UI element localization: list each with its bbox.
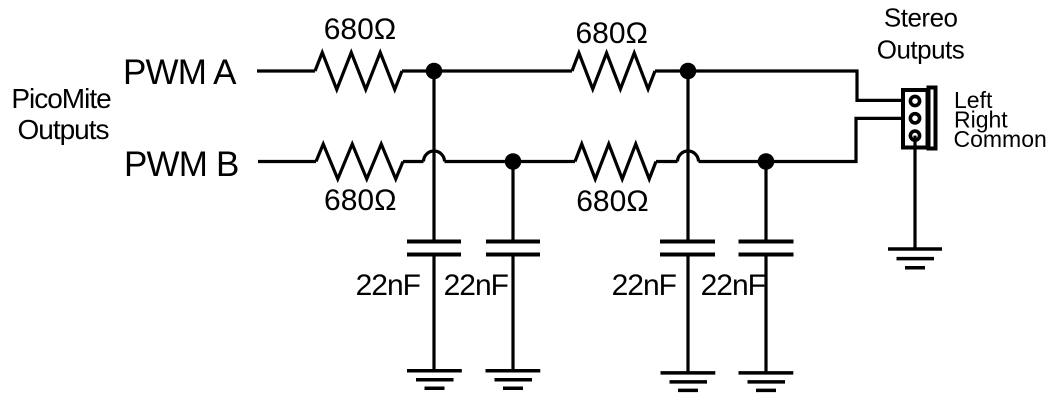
ground G1	[407, 371, 462, 389]
wire B row to connector (Right)	[699, 118, 904, 161]
wire V2 junction J3 down to C2	[511, 162, 514, 242]
capacitor C2 22nF	[444, 242, 540, 303]
svg-text:Outputs: Outputs	[877, 35, 965, 65]
svg-text:22nF: 22nF	[444, 269, 509, 302]
capacitor C1 22nF	[356, 242, 461, 303]
svg-text:22nF: 22nF	[356, 269, 421, 302]
svg-text:PWM A: PWM A	[123, 53, 237, 92]
wire PWM B input	[258, 160, 316, 163]
wire C1 to ground	[432, 255, 435, 371]
node junction J3	[505, 153, 522, 170]
svg-text:22nF: 22nF	[701, 269, 766, 302]
connector J5 stereo jack body	[903, 88, 936, 149]
node PWM B	[124, 145, 239, 184]
label PicoMite Outputs	[11, 83, 111, 145]
svg-text:PicoMite: PicoMite	[11, 83, 111, 114]
wire B row segment 2	[656, 160, 678, 163]
wire B row segment	[403, 160, 424, 163]
resistor R3 680Ω	[316, 144, 403, 217]
connector pin 1 Left	[910, 96, 919, 105]
ground G5	[888, 249, 942, 268]
capacitor C4 22nF	[701, 242, 794, 303]
resistor R1 680Ω	[315, 13, 402, 90]
wire V1 junction J1 down to C1	[432, 71, 435, 242]
wire hop over V3	[678, 151, 699, 162]
ground G4	[739, 373, 794, 391]
svg-text:680Ω: 680Ω	[324, 184, 396, 217]
wire C4 to ground	[764, 255, 767, 373]
wire C3 to ground	[686, 255, 689, 373]
wire A row middle	[402, 69, 572, 72]
wire V3 junction J2 down to C3	[686, 71, 689, 242]
ground G2	[486, 371, 541, 389]
label pin names	[954, 87, 1047, 152]
connector pin 3 Common	[910, 131, 919, 140]
node junction J1	[426, 63, 443, 80]
svg-text:22nF: 22nF	[612, 269, 677, 302]
resistor R2 680Ω	[572, 17, 655, 89]
node junction J2	[680, 63, 697, 80]
ground G3	[661, 373, 716, 391]
wire A row to connector (Left)	[655, 71, 903, 100]
resistor R4 680Ω	[575, 144, 656, 218]
svg-text:Common: Common	[954, 126, 1047, 152]
label Stereo Outputs	[877, 3, 965, 65]
node PWM A	[123, 53, 237, 92]
svg-text:Stereo: Stereo	[884, 3, 958, 33]
svg-text:Outputs: Outputs	[17, 114, 108, 145]
wire C2 to ground	[511, 255, 514, 371]
svg-text:PWM B: PWM B	[124, 145, 239, 184]
wire Common pin to ground	[913, 136, 916, 249]
wire B row middle	[445, 160, 576, 163]
wire V4 junction J4 down to C4	[764, 162, 767, 242]
connector pin 2 Right	[910, 114, 919, 123]
wire PWM A input	[257, 69, 315, 72]
svg-text:680Ω: 680Ω	[575, 17, 647, 50]
wire hop over V1	[424, 151, 445, 162]
capacitor C3 22nF	[612, 242, 715, 303]
svg-text:680Ω: 680Ω	[324, 13, 396, 46]
node junction J4	[758, 153, 775, 170]
svg-text:680Ω: 680Ω	[576, 185, 648, 218]
